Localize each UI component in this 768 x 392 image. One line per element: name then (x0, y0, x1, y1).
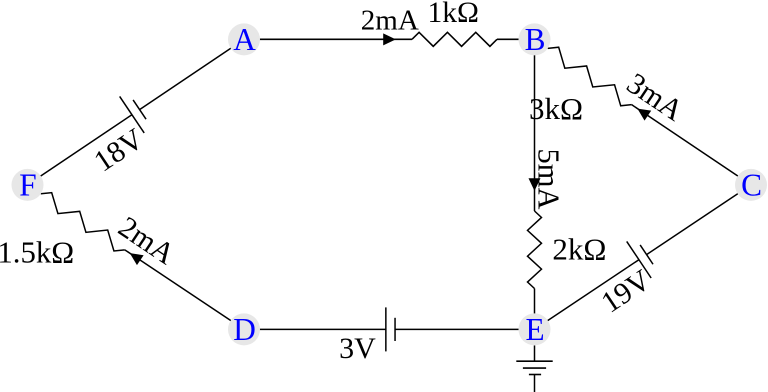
svg-text:5mA: 5mA (532, 149, 566, 210)
svg-text:C: C (741, 168, 762, 203)
svg-text:2kΩ: 2kΩ (552, 231, 606, 266)
svg-text:2mA: 2mA (112, 210, 180, 271)
svg-text:E: E (525, 312, 544, 347)
svg-text:1kΩ: 1kΩ (428, 0, 479, 29)
svg-text:2mA: 2mA (361, 4, 419, 36)
svg-text:18V: 18V (88, 122, 150, 178)
svg-text:D: D (233, 312, 256, 347)
svg-text:3kΩ: 3kΩ (529, 91, 583, 126)
svg-text:3V: 3V (339, 332, 376, 365)
svg-text:1.5kΩ: 1.5kΩ (0, 236, 74, 270)
svg-text:3mA: 3mA (621, 67, 689, 128)
svg-text:F: F (19, 168, 36, 203)
svg-text:A: A (233, 22, 256, 57)
svg-text:B: B (525, 22, 546, 57)
